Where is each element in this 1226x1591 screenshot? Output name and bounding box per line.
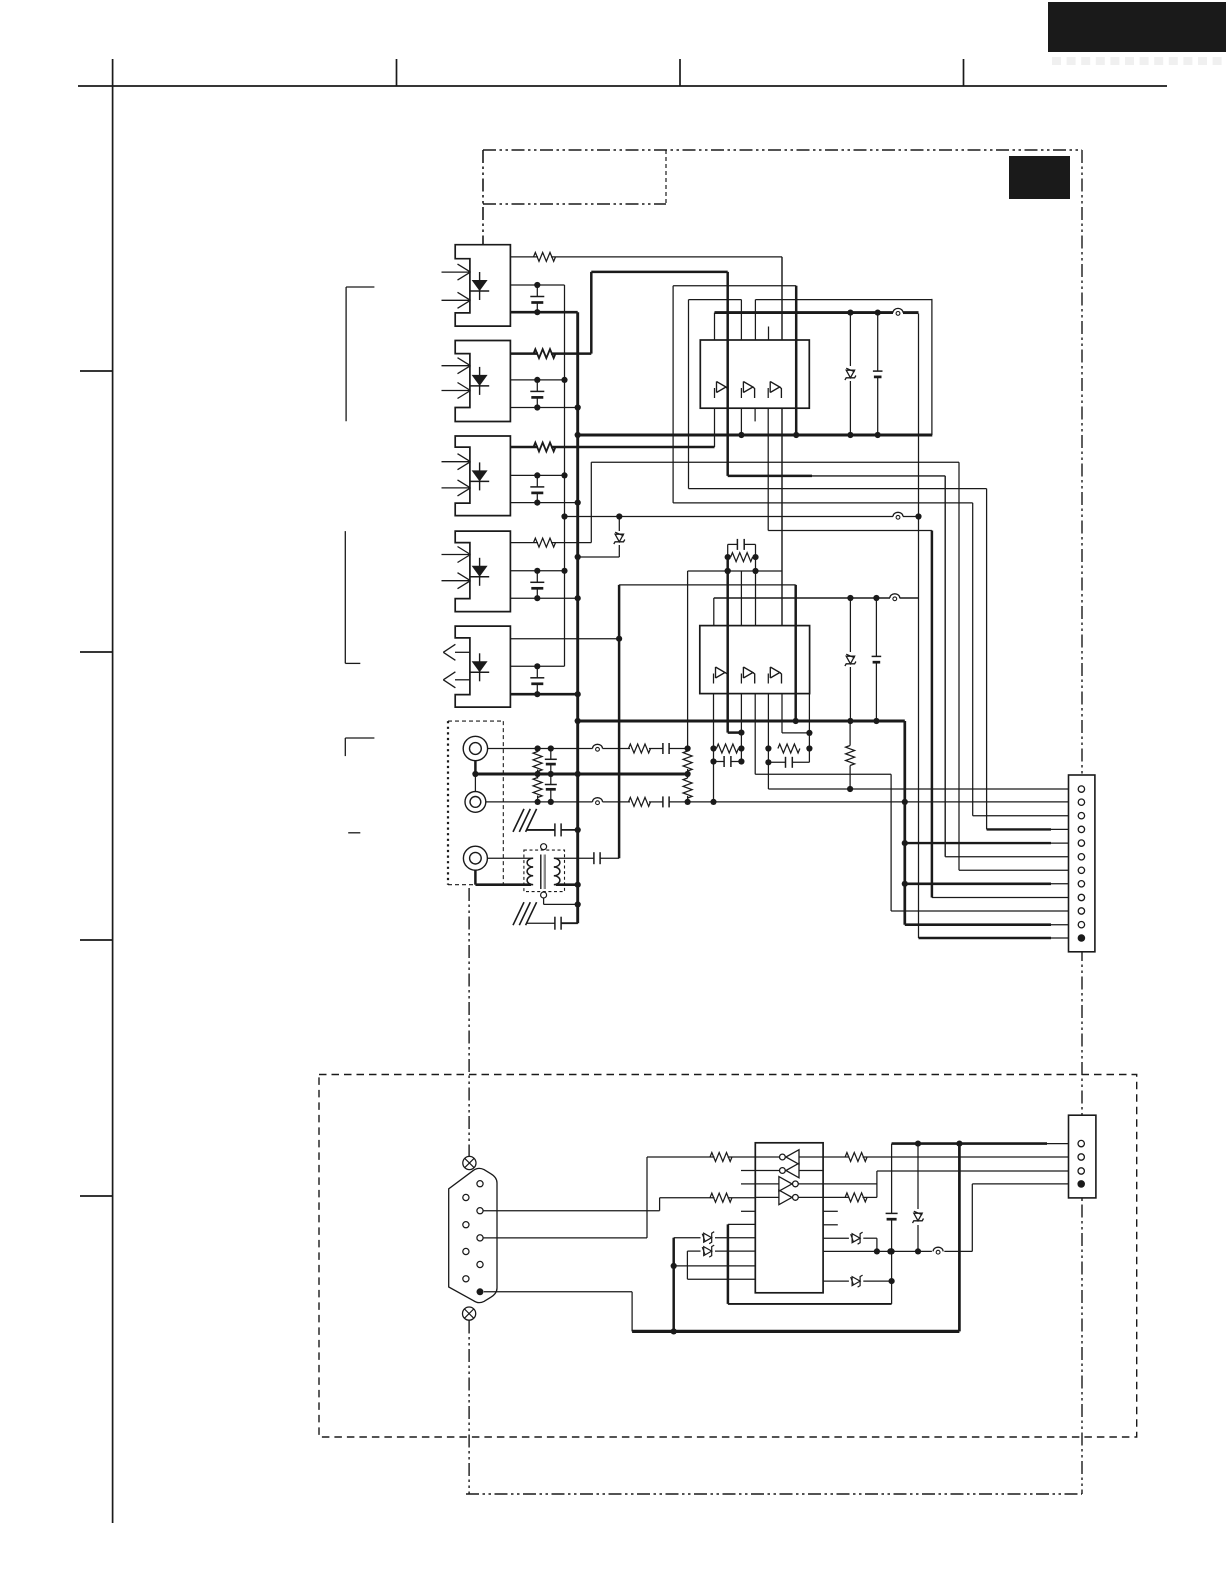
wire run y=489 (IC1 pin3 net) bbox=[689, 488, 987, 490]
wire IC2 net y=585 bbox=[619, 584, 796, 586]
wire J3 signal to T1 primary bbox=[488, 857, 531, 859]
resistor R1 on PC1 output (top pin) bbox=[510, 252, 782, 261]
wire PC4 mid pin bbox=[510, 568, 567, 574]
optocoupler PC1 body bbox=[455, 245, 510, 326]
zener diode D6 row 1238.2 bbox=[823, 1232, 877, 1244]
tick near jack J3 bbox=[348, 832, 360, 834]
D-sub CN3 pin circle l4 bbox=[463, 1276, 469, 1282]
D-sub CN3 pin circle l1 bbox=[463, 1194, 469, 1200]
D-sub CN3 pin circle r1 bbox=[477, 1181, 483, 1187]
IC1 NC stub above pin5 bbox=[768, 327, 770, 341]
capacitor C6 at IC1 bbox=[873, 313, 883, 439]
wire IC1 pin6 to IC2 net y=571 (riser x=782) bbox=[781, 408, 783, 571]
wire IC2 input net y=571 bbox=[688, 568, 782, 574]
D-sub CN3 pin circle r2 bbox=[477, 1208, 483, 1214]
wire x=687.6 riser from y=571 net bbox=[687, 571, 689, 749]
optocoupler PC2 internal LED bbox=[470, 367, 489, 395]
jumper curl on IC1 top bus bbox=[893, 308, 903, 315]
wire PC5 mid pin bbox=[510, 663, 564, 669]
wire CN3 pin7 riser (thick) x=728 bbox=[727, 1224, 730, 1304]
connector CN1 pin 8 bbox=[1078, 881, 1084, 887]
wire IC1 net y=285.7 bbox=[673, 285, 796, 287]
capacitor C1 at PC1 bbox=[530, 285, 544, 315]
wire J1 signal row y=748.5 bbox=[488, 745, 630, 751]
page border top rule bbox=[78, 85, 1167, 87]
wire thick ground net vertical x=578 bbox=[575, 312, 581, 923]
bracket group B (inputs PC4-PC5) bbox=[345, 531, 360, 663]
optocoupler PC2 body bbox=[455, 341, 510, 422]
wire RC row2 left node to CN1 pin1 run bbox=[768, 762, 1078, 792]
resistor R12 on J2 row bbox=[629, 797, 651, 806]
capacitor C3 at PC3 bbox=[530, 475, 544, 505]
wire PC2 bottom pin bbox=[510, 404, 580, 410]
wire T1 bottom pin to ground net bbox=[544, 898, 578, 904]
wire riser x=876.9 to CN2 pin3 bbox=[877, 1171, 1078, 1197]
page border left rule bbox=[112, 59, 114, 1523]
wire IC1 loop right edge x=918 bbox=[915, 314, 921, 939]
capacitor C4 at PC4 bbox=[530, 571, 544, 602]
RCA shield dashed box bbox=[448, 721, 503, 885]
wire IC1 pin4 riser bbox=[754, 300, 756, 340]
IC1 ground bus bottom (thick) bbox=[578, 432, 933, 438]
wire vertical x=673 (IC1 pin7 net) bbox=[672, 286, 674, 503]
wire PC4 bottom pin bbox=[510, 595, 580, 601]
wire zener D2 foot to ground net bbox=[578, 556, 620, 558]
wire PC1 top to IC1 pin6 bbox=[781, 257, 783, 340]
wire PC4 net riser x=591 bbox=[590, 462, 592, 542]
D-sub CN3 pin circle l3 bbox=[463, 1248, 469, 1254]
optocoupler PC3 internal LED bbox=[470, 462, 489, 490]
top tick x=680 bbox=[679, 59, 681, 86]
D-sub CN3 pin circle r3 bbox=[477, 1235, 483, 1241]
capacitor C16 chassis 2 coupling bbox=[526, 917, 578, 930]
optocoupler PC2 input arrow 2 bbox=[442, 383, 471, 399]
wire loop x=687.4 to row 1279.2 bbox=[687, 1251, 755, 1279]
IC1 internal buffer 2 bbox=[741, 382, 754, 399]
capacitor C17 series bbox=[594, 852, 619, 864]
wire J2 signal row y=802 bbox=[486, 801, 630, 803]
IC3 interface driver body bbox=[755, 1143, 823, 1293]
wire CN1 pin7 run bbox=[959, 869, 1078, 871]
D-sub CN3 pin circle r4 bbox=[477, 1261, 483, 1267]
capacitor C15 chassis 1 coupling bbox=[526, 823, 578, 836]
connector CN2 pin 4 (filled) bbox=[1077, 1180, 1085, 1188]
wire IC1 pin1 lower segment bbox=[714, 408, 716, 447]
top tick x=396 bbox=[396, 59, 398, 86]
ferrite curl on J2 row bbox=[593, 798, 603, 805]
wire IC2 pin1 riser bbox=[713, 598, 715, 626]
IC1 internal buffer 1 bbox=[715, 382, 728, 399]
resistor R18 row 1197.4 right bbox=[823, 1193, 877, 1202]
IC1 internal buffer 3 bbox=[768, 382, 781, 399]
D-sub mounting screw bottom (circle-X) bbox=[463, 1307, 476, 1320]
wire CN3 pin9 ground run bbox=[484, 1292, 632, 1332]
wire vertical x=688 (IC1 pin3 net) bbox=[688, 300, 690, 489]
zener diode D1 at IC1 bbox=[845, 313, 856, 439]
connector CN1 pin 5 bbox=[1078, 840, 1084, 846]
board outline dash-dot top edge bbox=[483, 149, 1082, 151]
wire IC2 pin4 lower segment bbox=[754, 694, 756, 775]
optocoupler PC5 internal LED bbox=[470, 653, 489, 681]
wire CN1 pin4 run (thick) bbox=[987, 828, 1079, 830]
wire IC2 pin3 riser bbox=[740, 571, 742, 626]
wire IC1 pin7 thick through-line x=796.2 bbox=[793, 286, 799, 438]
resistor R8 from IC2 bus to pin1 run bbox=[846, 721, 855, 789]
connector CN1 pin 12 (filled) bbox=[1078, 934, 1086, 942]
wire run y=462 (PC4 net) bbox=[591, 461, 959, 463]
wire IC2 pin5 lower segment to RC node bbox=[767, 694, 769, 749]
capacitor C14 series on J2 row bbox=[649, 796, 691, 807]
board outline dash-dot below D-sub bbox=[468, 1321, 470, 1495]
jumper curl on y=516 run bbox=[893, 512, 903, 519]
wire IC1 pin4 run to bus riser bbox=[755, 299, 932, 435]
connector CN2 body bbox=[1069, 1115, 1096, 1198]
D-sub connector CN3 shell bbox=[449, 1168, 497, 1302]
jumper curl on IC2 top bus bbox=[890, 594, 900, 601]
IC3 inverter 2 (left-facing, output bubble left) bbox=[755, 1163, 823, 1178]
IC3 NC stubs left bbox=[741, 1171, 755, 1212]
wire PC3 bottom pin bbox=[510, 500, 580, 506]
wire riser x=945 to CN1 pin6 (thick net) bbox=[944, 476, 946, 857]
wire IC2 pin7 thick through-line x=795.7 bbox=[793, 585, 799, 724]
RCA ground bus (thick) bbox=[475, 771, 690, 777]
bracket C near jack J1 bbox=[345, 738, 374, 756]
wire IC2 pin2 thick through-line x=727.7 bbox=[725, 557, 731, 733]
IC2 internal buffer 3 bbox=[768, 667, 781, 684]
left tick y=652 bbox=[80, 651, 113, 653]
board outline dash-dot bottom edge bbox=[466, 1493, 1082, 1495]
wire IC1 pin5 lower segment to y=530 run bbox=[767, 408, 769, 530]
wire IC1 pin6 riser bbox=[781, 257, 783, 340]
resistor R10 J1 to ground bbox=[533, 749, 542, 775]
wire IC1 pin3 riser bbox=[740, 300, 742, 340]
optocoupler PC4 internal LED bbox=[470, 558, 489, 586]
optocoupler PC5 output arrow 2 bbox=[443, 672, 470, 688]
wire J2 row continues to CN1 pin2 bbox=[688, 799, 1079, 805]
resistor R11 ground to J2 bbox=[533, 774, 542, 805]
IC3 inverter 1 (left-facing, output bubble left) bbox=[755, 1150, 823, 1165]
wire riser x=876.9 lower bbox=[876, 1238, 878, 1251]
wire row 1251.4 to CN2 pin4 bbox=[823, 1184, 1078, 1255]
wire IC2 pin4 run to CN1 pin10 bbox=[755, 774, 891, 911]
wire J3 ground stem (thick) bbox=[474, 870, 477, 885]
wire CN1 pin11 run (thick) bbox=[905, 923, 1078, 926]
wire run y=530 (IC1 pin5 net) bbox=[768, 530, 932, 532]
connector CN1 pin 3 bbox=[1078, 813, 1084, 819]
wire IC1 pin1 riser bbox=[714, 313, 716, 340]
bracket group A (inputs PC1-PC2) bbox=[346, 287, 374, 421]
resistor R4 on PC4 output bbox=[510, 538, 591, 547]
wire row 1183.9 right bbox=[823, 1183, 877, 1185]
optocoupler PC5 body bbox=[455, 626, 510, 707]
wire IC2 pin3 lower jog (thick) bbox=[728, 694, 745, 749]
connector CN1 pin 11 bbox=[1078, 922, 1084, 928]
transformer T1 top pin circle bbox=[541, 844, 547, 850]
board outline dash-dot left edge lower bbox=[468, 888, 470, 1156]
wire J3 ground to T1 primary bottom (thick) bbox=[475, 883, 531, 886]
D-sub CN3 pin circle l2 bbox=[463, 1222, 469, 1228]
wire J2 ground stem bbox=[474, 774, 476, 792]
zener diode D5 row 1251.1 bbox=[687, 1245, 755, 1257]
zener diode D7 row 1281.1 bbox=[823, 1275, 890, 1287]
thick ground vertical x=673.7 bbox=[671, 1238, 677, 1335]
wire PC3 mid pin bbox=[510, 472, 567, 478]
wire thick vertical x=619 (PC5 net) bbox=[618, 585, 621, 858]
capacitor C5 at PC5 bbox=[530, 666, 544, 697]
connector CN2 pin 3 bbox=[1078, 1168, 1084, 1174]
wire riser x=891.6 with capacitor C18 bbox=[886, 1144, 898, 1304]
wire PC2 net top run (thick) bbox=[591, 271, 727, 274]
optocoupler PC1 input arrow 2 bbox=[442, 292, 471, 308]
wire riser x=986 to CN1 pin4 bbox=[986, 489, 988, 830]
optocoupler PC3 input arrow 2 bbox=[442, 480, 471, 496]
wire PC5 top pin to node on x=619 bbox=[510, 636, 622, 642]
connector CN1 pin 2 bbox=[1078, 799, 1084, 805]
board outline dash-dot left edge upper bbox=[482, 150, 484, 245]
resistor R13 J1-node to ground bus bbox=[683, 749, 692, 775]
D-sub CN3 pin 9 (filled) bbox=[477, 1288, 484, 1295]
wire thick riser x=905 from IC2 bus bbox=[902, 721, 908, 925]
wire CN1 pin10 run bbox=[891, 910, 1078, 912]
board outline label notch bbox=[483, 150, 666, 204]
capacitor C8 at IC2 bbox=[872, 598, 882, 724]
IC2 internal buffer 2 bbox=[741, 667, 754, 684]
optocoupler PC1 input arrow 1 bbox=[442, 264, 471, 280]
wire run y=516 (common mid-pin net) bbox=[565, 513, 919, 519]
wire T1 secondary top to C17 bbox=[556, 857, 594, 859]
wire row 1265.9 from ground vertical bbox=[674, 1265, 756, 1267]
IC2 ground bus bottom (thick) bbox=[578, 720, 905, 723]
wire CN3 pin2 to IC3 input (row 1210.6) bbox=[483, 1198, 659, 1211]
capacitor C11 series on J1 row bbox=[649, 743, 691, 754]
resistor R15 on IC3 input row 1157 bbox=[647, 1153, 755, 1162]
wire RC row1 cap node down to J2 row bbox=[713, 762, 715, 802]
wire T1 secondary bottom to ground net (thick) bbox=[556, 883, 578, 886]
connector CN1 pin 1 bbox=[1078, 786, 1084, 792]
wire bottom run y=1304 bbox=[728, 1303, 892, 1305]
black title block top-right bbox=[1048, 2, 1226, 52]
capacitor C13 ground to J2 bbox=[545, 774, 557, 805]
resistor R16 on IC3 input row 1198 bbox=[660, 1193, 756, 1202]
optocoupler PC1 internal LED bbox=[470, 272, 489, 300]
zener diode D2 to ground net bbox=[614, 517, 625, 558]
connector CN1 pin 6 bbox=[1078, 854, 1084, 860]
wire riser x=973 to CN1 pin3 bbox=[972, 503, 974, 816]
RCA jack J1 bbox=[463, 736, 487, 760]
connector CN1 pin 4 bbox=[1078, 826, 1084, 832]
bottom ground bus (thick) bbox=[632, 1330, 959, 1333]
RCA jack J3 bbox=[463, 846, 487, 870]
optocoupler PC4 body bbox=[455, 531, 510, 612]
resistor R3 on PC3 output (thick net) bbox=[510, 443, 714, 452]
transformer T1 dashed box bbox=[524, 850, 565, 892]
connector CN1 body bbox=[1069, 775, 1095, 952]
wire CN1 pin5 run (thick) bbox=[905, 842, 1078, 844]
chassis ground symbol 2 bbox=[513, 902, 537, 925]
parallel RC network R5/C7 above IC2 bbox=[725, 539, 759, 562]
wire CN1 pin6 run bbox=[945, 856, 1078, 858]
left tick y=371 bbox=[80, 370, 113, 372]
optocoupler PC3 body bbox=[455, 436, 510, 516]
left tick y=1196 bbox=[80, 1195, 113, 1197]
optocoupler PC4 input arrow 1 bbox=[442, 547, 471, 563]
wire CN3 pin3 to IC3 input (row 1238.2) bbox=[483, 1157, 647, 1238]
chassis ground symbol 1 bbox=[513, 809, 537, 832]
black label box on board outline bbox=[1009, 156, 1070, 199]
wire PC2 mid pin bbox=[510, 377, 567, 383]
IC2 photocoupler array body bbox=[700, 626, 810, 694]
CN2 supply bus (thick) bbox=[892, 1141, 1079, 1147]
RCA jack J2 bbox=[465, 792, 486, 813]
bottom assembly dashed enclosure bbox=[319, 1075, 1137, 1438]
resistor R17 row 1157 right bbox=[823, 1153, 1078, 1162]
wire CN1 pin9 run bbox=[932, 897, 1078, 899]
connector CN2 pin 2 bbox=[1078, 1154, 1084, 1160]
IC1 NC stub below pin4 bbox=[754, 408, 756, 421]
IC2 internal buffer 1 bbox=[714, 667, 728, 684]
wire riser x=959 to CN1 pin7 bbox=[958, 462, 960, 870]
top tick x=963 bbox=[963, 59, 965, 86]
wire PC5 bottom pin (thick) bbox=[510, 691, 580, 697]
wire IC1 pin6 lower segment bbox=[781, 408, 783, 733]
wire IC2 pin1 lower segment to RC node bbox=[713, 694, 715, 749]
optocoupler PC5 output arrow 1 bbox=[443, 644, 470, 660]
optocoupler PC2 input arrow 1 bbox=[442, 358, 471, 374]
wire CN1 pin8 run (thick) bbox=[905, 882, 1078, 885]
IC1 photocoupler array body bbox=[700, 340, 809, 408]
wire IC1 pin2 thick through-line x=727.7 bbox=[726, 272, 729, 476]
wire IC2 pin4 riser bbox=[755, 557, 757, 626]
wire PC2 net riser x=591 bbox=[590, 272, 593, 354]
optocoupler PC4 input arrow 2 bbox=[442, 573, 471, 589]
D-sub mounting screw top (circle-X) bbox=[463, 1156, 476, 1169]
wire PC1 bottom pin (thick) bbox=[510, 311, 577, 314]
IC1 supply bus top (thick) bbox=[715, 310, 919, 316]
zener diode D8 riser x=918 bbox=[913, 1141, 924, 1252]
wire IC3 stub row 1224 to riser bbox=[728, 1223, 755, 1225]
IC3 NC stubs right bbox=[823, 1211, 838, 1225]
parallel RC network R7/C10 (row 2) bbox=[765, 744, 812, 768]
wire IC1 pin3 upper run bbox=[689, 299, 742, 301]
left tick y=940 bbox=[80, 939, 113, 941]
connector CN1 pin 7 bbox=[1078, 867, 1084, 873]
board outline dash-dot right edge bbox=[1081, 150, 1083, 1494]
wire IC1 pin6 lower jog bbox=[782, 694, 813, 749]
IC3 inverter 3 (right-facing, output bubble right) bbox=[755, 1177, 823, 1192]
transformer T1 windings and core bbox=[527, 855, 560, 890]
resistor R14 ground bus to J2-node bbox=[683, 774, 692, 802]
connector CN1 pin 10 bbox=[1078, 908, 1084, 914]
parallel RC network R6/C9 (row 1) bbox=[710, 744, 744, 767]
wire CN1 pin12 run (thick) bbox=[919, 937, 1079, 940]
wire right riser x=931.9 to CN1 pin9 bbox=[931, 531, 934, 898]
wire J1 ground stem (thick) bbox=[472, 761, 478, 777]
resistor R2 on PC2 output (thick net) bbox=[510, 349, 591, 358]
zener diode D3 at IC2 bbox=[845, 598, 856, 724]
IC2 supply bus top bbox=[714, 595, 919, 601]
thick riser x=959.4 CN2 pin1 to ground bus bbox=[958, 1144, 961, 1332]
resistor R9 on J1 row bbox=[629, 744, 651, 753]
jumper curl row 1251.4 bbox=[933, 1247, 943, 1254]
wire common net vertical x=564 (PC mid pins) bbox=[561, 285, 567, 666]
wire CN1 pin3 run bbox=[973, 815, 1078, 817]
ferrite curl on J1 row bbox=[593, 744, 603, 751]
optocoupler PC3 input arrow 1 bbox=[442, 454, 471, 470]
wire IC2 pin6 riser bbox=[781, 571, 783, 626]
connector CN1 pin 9 bbox=[1078, 894, 1084, 900]
faint printing ghost under title block bbox=[1052, 57, 1222, 65]
capacitor C2 at PC2 bbox=[530, 380, 544, 411]
wire run y=503 (IC1 pin7 net) bbox=[673, 502, 973, 504]
wire run y=476 (PC2 thick net) bbox=[728, 475, 946, 478]
IC3 inverter 4 (right-facing, output bubble right) bbox=[755, 1190, 823, 1205]
transformer T1 bottom pin circle bbox=[541, 892, 547, 898]
wire PC1 mid pin bbox=[510, 282, 564, 288]
zener diode D4 row 1237.7 bbox=[674, 1232, 756, 1244]
wire IC1 pin3 lower segment bbox=[740, 408, 742, 435]
connector CN2 pin 1 bbox=[1078, 1140, 1084, 1146]
capacitor C12 J1 to ground bbox=[545, 749, 557, 775]
